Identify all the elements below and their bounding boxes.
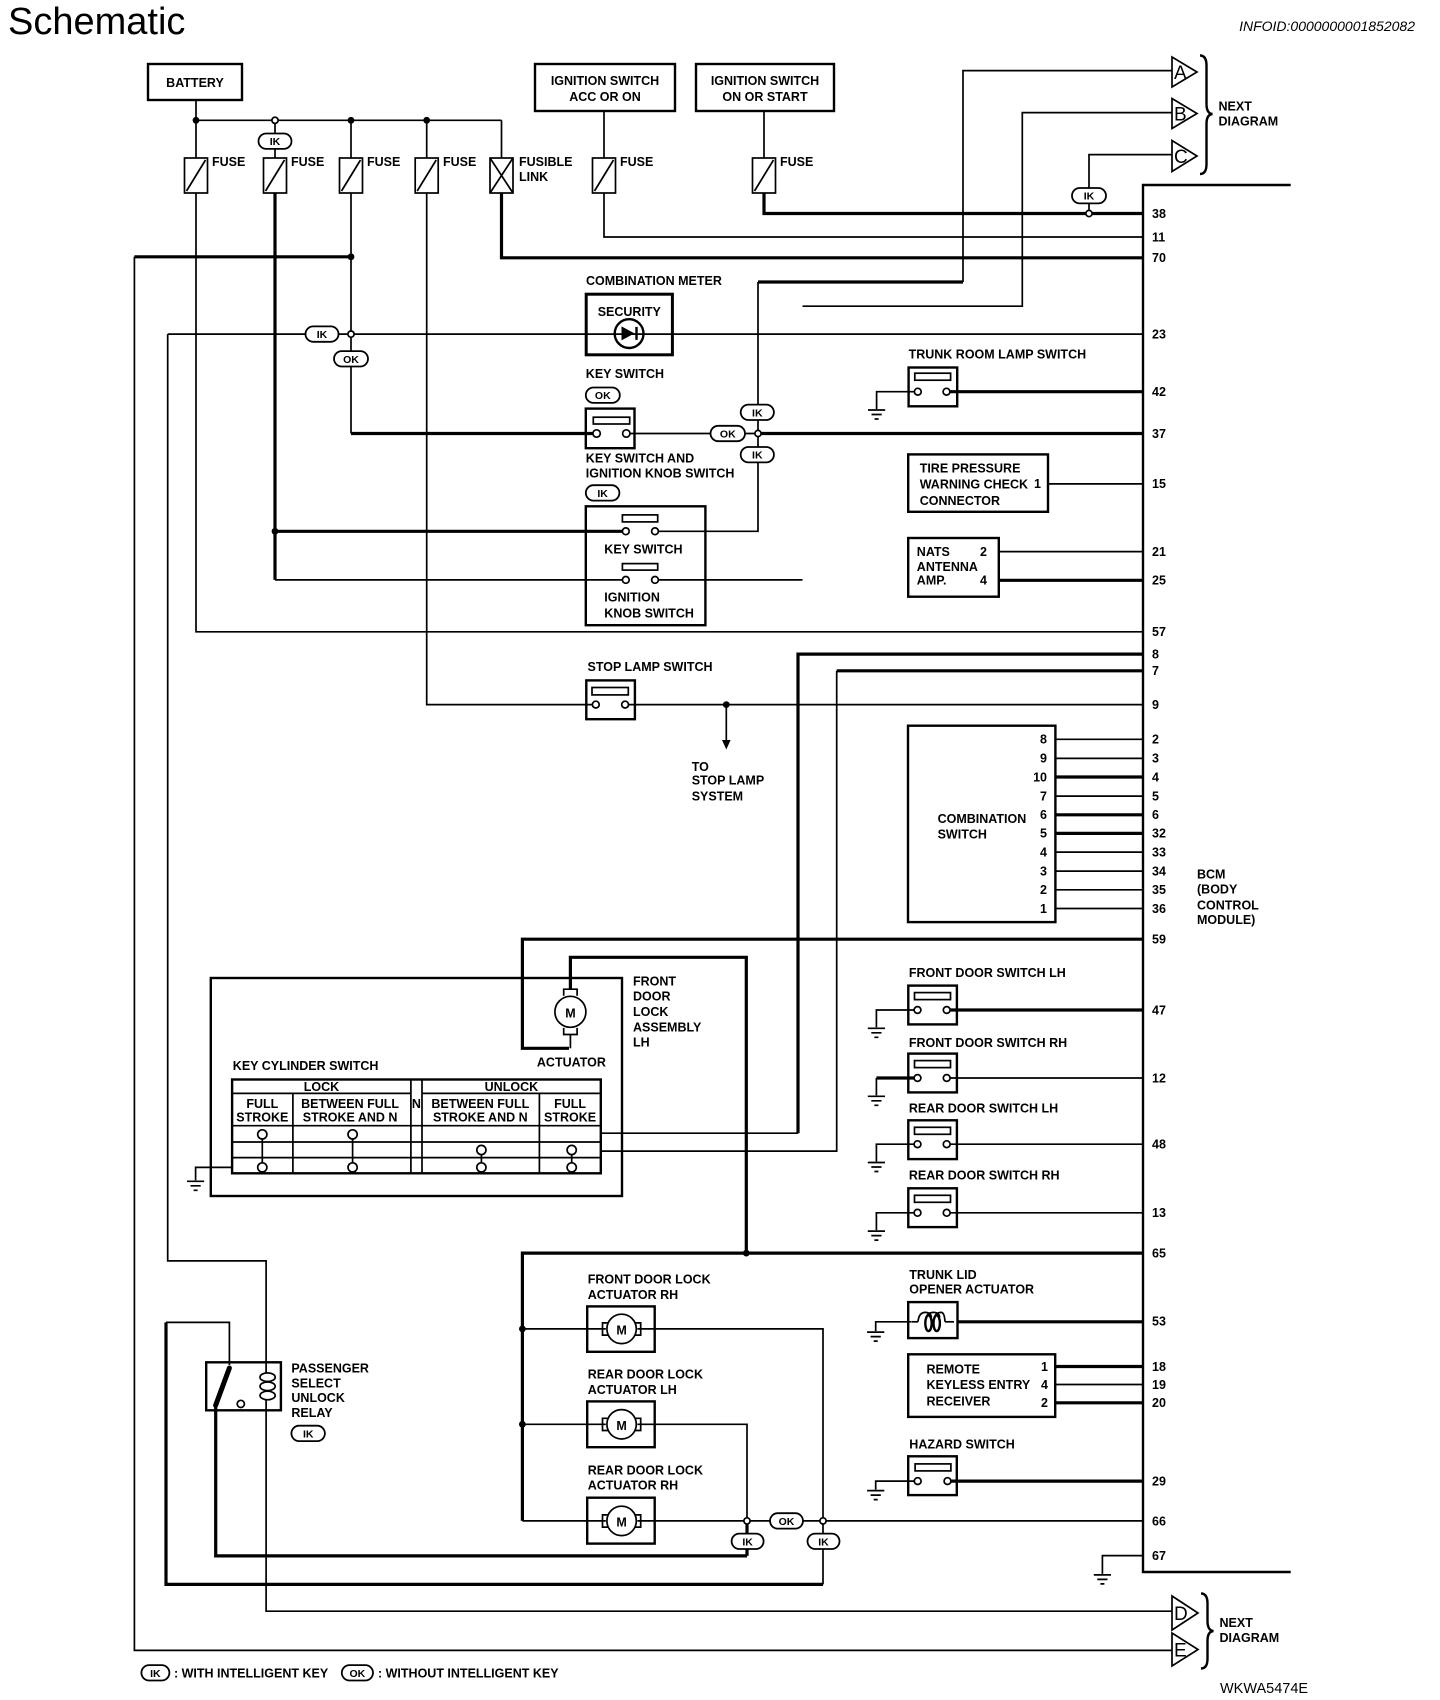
IK tag left of security circle	[306, 326, 339, 341]
wire bus to fuse F4	[426, 120, 428, 158]
wire NATS pin 2 to BCM pin 21	[999, 551, 1143, 553]
svg-text:SELECT: SELECT	[291, 1376, 341, 1390]
wire bus to fuse F3	[350, 120, 352, 158]
svg-text:IGNITION: IGNITION	[604, 590, 660, 604]
svg-text:OK: OK	[720, 429, 736, 441]
wire rear door switch RH to ground	[876, 1213, 914, 1230]
svg-text:WARNING CHECK: WARNING CHECK	[920, 478, 1028, 492]
svg-text:BCM: BCM	[1197, 868, 1225, 882]
svg-text:66: 66	[1152, 1515, 1166, 1529]
wire fusible link to BCM pin 70	[502, 193, 1144, 258]
svg-text:2: 2	[980, 545, 987, 559]
svg-text:7: 7	[1152, 664, 1159, 678]
svg-text:9: 9	[1040, 752, 1047, 766]
svg-text:IK: IK	[752, 450, 763, 462]
wire bus to fuse F1	[195, 120, 197, 158]
wire key switch to OK tag and option circle	[630, 433, 755, 435]
wire BCM pin 65	[522, 1253, 1143, 1521]
wire fuse F5 to BCM pin 11	[604, 193, 1143, 237]
wire feed to rear door lock actuator LH	[522, 1423, 605, 1425]
wire combination switch pin 4 to BCM pin 33	[1055, 851, 1143, 853]
wire combination switch pin 3 to BCM pin 34	[1055, 870, 1143, 872]
svg-text:8: 8	[1152, 647, 1159, 661]
column header labels	[236, 1097, 596, 1124]
svg-text:B: B	[1174, 105, 1187, 126]
wire fuse F2 down to key switch row	[273, 193, 276, 580]
wire arrow A chain	[963, 71, 1172, 282]
key switch contact bar	[622, 515, 657, 522]
wire trunk lid actuator to ground	[876, 1322, 911, 1331]
svg-text:59: 59	[1152, 933, 1166, 947]
svg-text:KEY SWITCH: KEY SWITCH	[586, 367, 664, 381]
wire option circle 1 to OK tag	[750, 1520, 770, 1522]
svg-text:ANTENNA: ANTENNA	[917, 560, 978, 574]
option connector circle on security wire	[348, 331, 354, 337]
wire key cylinder row 3	[601, 1132, 798, 1134]
svg-text:IK: IK	[1084, 191, 1095, 203]
wire key switch circle to BCM pin 37	[761, 432, 1143, 435]
svg-text:12: 12	[1152, 1071, 1166, 1085]
wire trunk lid actuator to BCM pin 53	[958, 1320, 1144, 1323]
svg-text:FUSE: FUSE	[212, 155, 245, 169]
ground trunk lid actuator	[867, 1332, 884, 1341]
svg-text:Schematic: Schematic	[8, 1, 185, 43]
svg-text:LH: LH	[633, 1036, 650, 1050]
svg-text:70: 70	[1152, 251, 1166, 265]
ground rear door switch LH	[868, 1163, 885, 1172]
wire feed to rear door lock actuator RH	[522, 1520, 605, 1522]
svg-text:COMBINATION: COMBINATION	[938, 812, 1027, 826]
IK tag passenger select unlock relay	[291, 1426, 325, 1441]
arrow A to next diagram	[1172, 57, 1197, 87]
svg-text:FULL: FULL	[246, 1097, 278, 1111]
svg-text:4: 4	[980, 574, 987, 588]
svg-text:OK: OK	[595, 390, 611, 402]
svg-text:M: M	[616, 1323, 626, 1337]
svg-text:IGNITION SWITCH: IGNITION SWITCH	[711, 74, 819, 88]
svg-text:6: 6	[1040, 808, 1047, 822]
IK tag at fuse F2	[259, 134, 292, 149]
ignition knob switch label inside box	[604, 590, 694, 620]
svg-text:2: 2	[1152, 733, 1159, 747]
svg-text:A: A	[1174, 63, 1187, 84]
wire IK tag to fuse F2	[274, 123, 276, 158]
IK tag key switch and ignition knob switch	[586, 485, 620, 500]
IK tag below option circle 1	[732, 1534, 764, 1549]
svg-text:5: 5	[1152, 789, 1159, 803]
svg-text:REAR DOOR SWITCH RH: REAR DOOR SWITCH RH	[909, 1169, 1060, 1183]
wire BCM pin 7 to key cylinder row 4	[837, 669, 1143, 672]
wire left rail3 to relay blade top	[166, 1322, 229, 1365]
ground front door switch LH	[868, 1028, 885, 1037]
key cylinder switch table grid lines	[232, 1080, 601, 1174]
svg-text:4: 4	[1152, 770, 1159, 784]
svg-text:REAR DOOR LOCK: REAR DOOR LOCK	[588, 1464, 703, 1478]
arrow C to next diagram	[1172, 141, 1197, 172]
front door lock assembly LH label	[633, 975, 702, 1050]
wire node E-feed to left rail	[134, 255, 351, 258]
wire down to key cylinder row 4	[601, 671, 837, 1151]
svg-text:SWITCH: SWITCH	[938, 828, 987, 842]
tire pressure warning check connector box	[908, 454, 1048, 511]
svg-text:OK: OK	[350, 1668, 366, 1680]
svg-text:KEYLESS ENTRY: KEYLESS ENTRY	[927, 1378, 1031, 1392]
svg-text:1: 1	[1040, 902, 1047, 916]
ground front door switch RH	[868, 1096, 885, 1105]
svg-text:47: 47	[1152, 1003, 1166, 1017]
wire combination switch pin 5 to BCM pin 32	[1055, 832, 1143, 835]
svg-text:FRONT DOOR SWITCH RH: FRONT DOOR SWITCH RH	[909, 1036, 1067, 1050]
wire fuse F2 branch to key switch left pin	[275, 530, 622, 533]
svg-text:UNLOCK: UNLOCK	[485, 1080, 538, 1094]
svg-text:RECEIVER: RECEIVER	[927, 1395, 991, 1409]
svg-text:65: 65	[1152, 1246, 1166, 1260]
wire combination switch pin 2 to BCM pin 35	[1055, 889, 1143, 891]
svg-text:25: 25	[1152, 574, 1166, 588]
wire fuse F1 down to BCM pin 57	[196, 193, 1143, 632]
svg-text:OK: OK	[779, 1516, 795, 1528]
svg-text:FUSIBLE: FUSIBLE	[519, 155, 572, 169]
svg-text:13: 13	[1152, 1206, 1166, 1220]
junction dot pin 65 and motor wire	[743, 1250, 750, 1257]
svg-text:DIAGRAM: DIAGRAM	[1220, 1631, 1280, 1645]
svg-text:KEY SWITCH: KEY SWITCH	[604, 543, 682, 557]
svg-text:TO: TO	[692, 760, 709, 774]
svg-text:STROKE AND N: STROKE AND N	[433, 1110, 528, 1124]
wire arrow B chain	[803, 113, 1173, 307]
wire front door switch LH to BCM pin 47	[950, 1008, 1143, 1011]
svg-text:29: 29	[1152, 1474, 1166, 1488]
ignition knob switch contact bar	[622, 564, 657, 571]
svg-text:35: 35	[1152, 883, 1166, 897]
option connector circle 1 on pin 66 wire	[744, 1518, 750, 1524]
passenger select unlock relay	[206, 1362, 281, 1410]
svg-text:ON OR START: ON OR START	[722, 90, 808, 104]
svg-text:ACTUATOR RH: ACTUATOR RH	[588, 1288, 679, 1302]
wire front door lock actuator RH to option circle 2	[637, 1329, 823, 1518]
svg-text:37: 37	[1152, 427, 1166, 441]
key cylinder switch table frame	[232, 1080, 601, 1174]
svg-text:MODULE): MODULE)	[1197, 913, 1255, 927]
junction dot fuse F2 branch	[272, 528, 279, 535]
svg-text:34: 34	[1152, 864, 1166, 878]
svg-text:57: 57	[1152, 625, 1166, 639]
fuse F4	[415, 155, 476, 193]
svg-text:BETWEEN FULL: BETWEEN FULL	[301, 1097, 399, 1111]
svg-text:ACTUATOR: ACTUATOR	[537, 1056, 606, 1070]
wire fuse F6 to BCM pin 38	[764, 193, 1143, 214]
svg-text:10: 10	[1033, 770, 1047, 784]
svg-text:STOP LAMP: STOP LAMP	[692, 774, 764, 788]
svg-text:36: 36	[1152, 902, 1166, 916]
wire ignition knob switch right pin to arrow B vertical	[658, 579, 802, 581]
trunk lid opener actuator	[908, 1302, 957, 1338]
svg-text:SECURITY: SECURITY	[598, 305, 662, 319]
svg-text:FUSE: FUSE	[443, 155, 476, 169]
svg-text:OK: OK	[343, 354, 359, 366]
wire receiver pin 1 to BCM pin 18	[1055, 1365, 1143, 1368]
wire OK path from left rail3	[166, 1322, 823, 1584]
svg-text:5: 5	[1040, 827, 1047, 841]
ignition knob switch pins	[622, 577, 658, 584]
junction dot bus at fuse F1	[193, 117, 200, 124]
svg-text:4: 4	[1041, 1378, 1048, 1392]
svg-text:ACC OR ON: ACC OR ON	[569, 90, 641, 104]
svg-text:FUSE: FUSE	[367, 155, 400, 169]
svg-text:STROKE AND N: STROKE AND N	[303, 1110, 398, 1124]
svg-text:STROKE: STROKE	[236, 1110, 288, 1124]
wire trunk room lamp switch to ground	[877, 392, 915, 409]
svg-text:SYSTEM: SYSTEM	[692, 790, 743, 804]
svg-text:KEY CYLINDER SWITCH: KEY CYLINDER SWITCH	[233, 1059, 379, 1073]
wire NATS pin 4 to BCM pin 25	[999, 579, 1143, 582]
svg-text:3: 3	[1040, 864, 1047, 878]
wire option circle 2 to BCM pin 66	[826, 1520, 1143, 1522]
wire main battery bus	[196, 119, 502, 121]
remote keyless entry receiver box	[908, 1354, 1055, 1417]
svg-text:LOCK: LOCK	[633, 1005, 668, 1019]
wire option circle 1 to relay blade wire	[745, 1524, 748, 1556]
OK tag above key switch	[586, 388, 620, 403]
svg-text:NATS: NATS	[917, 545, 950, 559]
rear door lock actuator RH label	[588, 1464, 703, 1493]
option connector circle bus at fuse F2	[272, 117, 278, 123]
key switch OK box	[586, 409, 635, 449]
junction dot feed front door lock actuator RH	[519, 1326, 526, 1333]
svg-text:BETWEEN FULL: BETWEEN FULL	[431, 1097, 529, 1111]
wire OK tag to option circle 2	[803, 1520, 820, 1522]
next diagram label top	[1219, 100, 1279, 129]
battery	[148, 64, 242, 100]
svg-text:TRUNK ROOM LAMP SWITCH: TRUNK ROOM LAMP SWITCH	[909, 347, 1087, 361]
front door switch RH	[908, 1054, 957, 1093]
svg-text:INFOID:0000000001852082: INFOID:0000000001852082	[1239, 18, 1415, 34]
wire front door switch RH to ground	[876, 1076, 914, 1079]
fuse F5	[593, 155, 654, 193]
key cylinder contact circles row lock	[258, 1130, 358, 1163]
svg-text:IK: IK	[270, 136, 281, 148]
wire ON/START box to fuse F6	[763, 111, 765, 158]
option connector circle key switch output	[755, 430, 761, 436]
wire left rail2 down to relay coil feed	[168, 334, 266, 1362]
brace next diagram top	[1200, 56, 1213, 175]
svg-text:ACTUATOR LH: ACTUATOR LH	[588, 1383, 677, 1397]
svg-text:2: 2	[1041, 1396, 1048, 1410]
svg-text:FRONT DOOR SWITCH LH: FRONT DOOR SWITCH LH	[909, 966, 1066, 980]
wire bus to fusible link	[501, 120, 503, 158]
svg-text:UNLOCK: UNLOCK	[291, 1391, 344, 1405]
wire fuse F3 down to IK/OK option circle	[350, 193, 352, 331]
wire trunk room lamp switch to BCM pin 42	[950, 390, 1143, 393]
option connector circle on pin 38 wire	[1086, 210, 1092, 216]
IK tag below option circle 2	[808, 1534, 840, 1549]
svg-text:M: M	[616, 1419, 626, 1433]
svg-text:7: 7	[1040, 789, 1047, 803]
svg-text:15: 15	[1152, 477, 1166, 491]
trunk lid opener actuator label	[909, 1268, 1034, 1297]
wire front door switch RH to BCM pin 12	[950, 1077, 1143, 1079]
fuse F1	[185, 155, 246, 193]
svg-text:IGNITION SWITCH: IGNITION SWITCH	[551, 74, 659, 88]
wire arrow A horizontal to key switch vertical	[758, 280, 963, 283]
ground hazard switch	[867, 1491, 884, 1500]
svg-text:19: 19	[1152, 1378, 1166, 1392]
wire BCM pin 8 to key cylinder row 3	[798, 654, 1143, 1133]
wire hazard switch to ground	[876, 1481, 915, 1490]
svg-text:(BODY: (BODY	[1197, 883, 1238, 897]
key switch and ignition knob switch label	[586, 451, 735, 480]
rear door switch RH	[908, 1188, 957, 1227]
BCM body control module box	[1143, 185, 1291, 1572]
svg-text:3: 3	[1152, 752, 1159, 766]
front door lock actuator RH	[587, 1306, 655, 1351]
svg-text:23: 23	[1152, 327, 1166, 341]
wire to key switch OK left pin	[351, 432, 593, 435]
svg-text:1: 1	[1041, 1360, 1048, 1374]
svg-text:IK: IK	[597, 488, 608, 500]
svg-text:33: 33	[1152, 845, 1166, 859]
svg-text:D: D	[1174, 1604, 1188, 1625]
ground trunk room lamp switch	[868, 410, 885, 419]
wire vertical key switch circle to A-chain and lower key switch	[658, 282, 758, 531]
svg-text:REMOTE: REMOTE	[927, 1363, 980, 1377]
svg-text:PASSENGER: PASSENGER	[291, 1362, 369, 1376]
svg-text:42: 42	[1152, 385, 1166, 399]
ground key cylinder switch	[187, 1181, 204, 1190]
OK tag on key switch output	[711, 426, 746, 441]
svg-text:REAR DOOR SWITCH LH: REAR DOOR SWITCH LH	[909, 1101, 1058, 1115]
wire fuse F2 to ignition knob switch left pin	[275, 579, 622, 581]
legend IK tag	[141, 1665, 169, 1680]
svg-text:11: 11	[1152, 230, 1165, 244]
svg-text:STROKE: STROKE	[544, 1110, 596, 1124]
actuator motor M front door lock assembly LH	[555, 989, 586, 1048]
svg-text:ACTUATOR RH: ACTUATOR RH	[588, 1479, 679, 1493]
svg-text:9: 9	[1152, 698, 1159, 712]
legend OK tag	[342, 1665, 373, 1680]
svg-text:DOOR: DOOR	[633, 990, 671, 1004]
wire hazard switch to BCM pin 29	[951, 1479, 1143, 1482]
svg-text:1: 1	[1034, 477, 1041, 491]
svg-text:HAZARD SWITCH: HAZARD SWITCH	[909, 1437, 1015, 1451]
combination switch box	[908, 726, 1055, 922]
rear door switch LH	[908, 1120, 957, 1159]
svg-text:E: E	[1174, 1641, 1187, 1662]
wire BCM pin 59 to front door lock assembly motor	[522, 939, 1143, 1048]
svg-text:67: 67	[1152, 1549, 1166, 1563]
svg-text:NEXT: NEXT	[1219, 100, 1253, 114]
svg-text:NEXT: NEXT	[1220, 1616, 1254, 1630]
junction dot bus at fuse F4	[423, 117, 430, 124]
fuse F3	[340, 155, 401, 193]
wire fuse F3 circle down to key switch feed	[350, 337, 352, 433]
junction dot stop lamp branch	[723, 701, 730, 708]
svg-text:BATTERY: BATTERY	[166, 76, 224, 90]
svg-text:IGNITION KNOB SWITCH: IGNITION KNOB SWITCH	[586, 466, 735, 480]
wire combination switch pin 1 to BCM pin 36	[1055, 908, 1143, 910]
brace next diagram bottom	[1201, 1594, 1214, 1669]
option connector circle 2 on pin 66 wire	[820, 1518, 826, 1524]
rear door lock actuator LH	[587, 1401, 655, 1447]
wire ACC box to fuse F5	[603, 111, 605, 158]
trunk room lamp switch	[909, 368, 958, 407]
svg-text:38: 38	[1152, 207, 1166, 221]
NATS antenna amp box	[908, 538, 999, 597]
svg-text:N: N	[412, 1097, 421, 1111]
svg-text:32: 32	[1152, 827, 1166, 841]
next diagram label bottom	[1220, 1616, 1280, 1645]
junction dot bus at fuse F3	[348, 117, 355, 124]
svg-text:IK: IK	[150, 1668, 161, 1680]
wire option circle 2 down to OK path wire	[822, 1524, 824, 1584]
arrow D to next diagram	[1172, 1596, 1198, 1630]
rear door lock actuator LH label	[588, 1368, 703, 1398]
svg-text:: WITH INTELLIGENT KEY: : WITH INTELLIGENT KEY	[174, 1667, 329, 1681]
key switch pins	[622, 528, 658, 535]
fuse F6	[753, 155, 814, 193]
svg-text:FRONT DOOR LOCK: FRONT DOOR LOCK	[588, 1273, 711, 1287]
arrow B to next diagram	[1172, 99, 1197, 129]
wire left rail down to arrow E	[134, 257, 1172, 1651]
wire rear door switch RH to BCM pin 13	[950, 1212, 1143, 1214]
svg-text:CONTROL: CONTROL	[1197, 898, 1259, 912]
wire rear door switch LH to ground	[876, 1144, 914, 1161]
passenger select unlock relay label	[291, 1362, 369, 1421]
wire key cylinder common row to ground	[196, 1167, 233, 1180]
wire rear door switch LH to BCM pin 48	[950, 1143, 1143, 1145]
svg-text:M: M	[565, 1006, 575, 1020]
wire battery to bus	[195, 100, 197, 120]
svg-text:21: 21	[1152, 545, 1166, 559]
stop lamp switch	[586, 680, 635, 719]
wire fuse F4 down to stop lamp switch	[427, 193, 593, 705]
wire rear door lock actuator LH to option circle 1	[637, 1424, 747, 1518]
svg-text:LINK: LINK	[519, 170, 548, 184]
svg-text:FUSE: FUSE	[620, 155, 653, 169]
combination meter security box	[586, 294, 672, 355]
wire combination switch pin 10 to BCM pin 4	[1055, 775, 1143, 778]
svg-text:53: 53	[1152, 1315, 1166, 1329]
front door lock actuator RH label	[588, 1273, 711, 1302]
IK tag below key switch circle	[741, 447, 774, 462]
wire assembly motor top to pin 65 junction	[570, 957, 746, 1253]
BCM pin labels column	[1152, 207, 1166, 1563]
front door lock assembly LH box	[211, 978, 622, 1196]
svg-text:AMP.: AMP.	[917, 574, 947, 588]
hazard switch	[908, 1456, 957, 1495]
svg-text:STOP LAMP SWITCH: STOP LAMP SWITCH	[588, 660, 713, 674]
svg-text:6: 6	[1152, 808, 1159, 822]
wire relay blade output	[216, 1405, 747, 1556]
ignition switch ACC or ON box	[535, 64, 675, 111]
svg-text:4: 4	[1040, 845, 1047, 859]
fuse F2	[264, 155, 325, 193]
IK tag above key switch circle	[741, 405, 774, 420]
svg-text:M: M	[616, 1515, 626, 1529]
svg-text:FRONT: FRONT	[633, 975, 676, 989]
wire combination switch pin 6 to BCM pin 6	[1055, 813, 1143, 816]
svg-text:C: C	[1174, 147, 1188, 168]
svg-text:18: 18	[1152, 1360, 1166, 1374]
svg-text:COMBINATION METER: COMBINATION METER	[586, 274, 722, 288]
svg-text:2: 2	[1040, 883, 1047, 897]
svg-text:IK: IK	[818, 1536, 829, 1548]
rear door lock actuator RH	[587, 1498, 655, 1544]
wire combination switch pin 8 to BCM pin 2	[1055, 738, 1143, 740]
relay coil	[260, 1362, 275, 1410]
fusible link FL	[490, 155, 572, 193]
svg-text:20: 20	[1152, 1396, 1166, 1410]
